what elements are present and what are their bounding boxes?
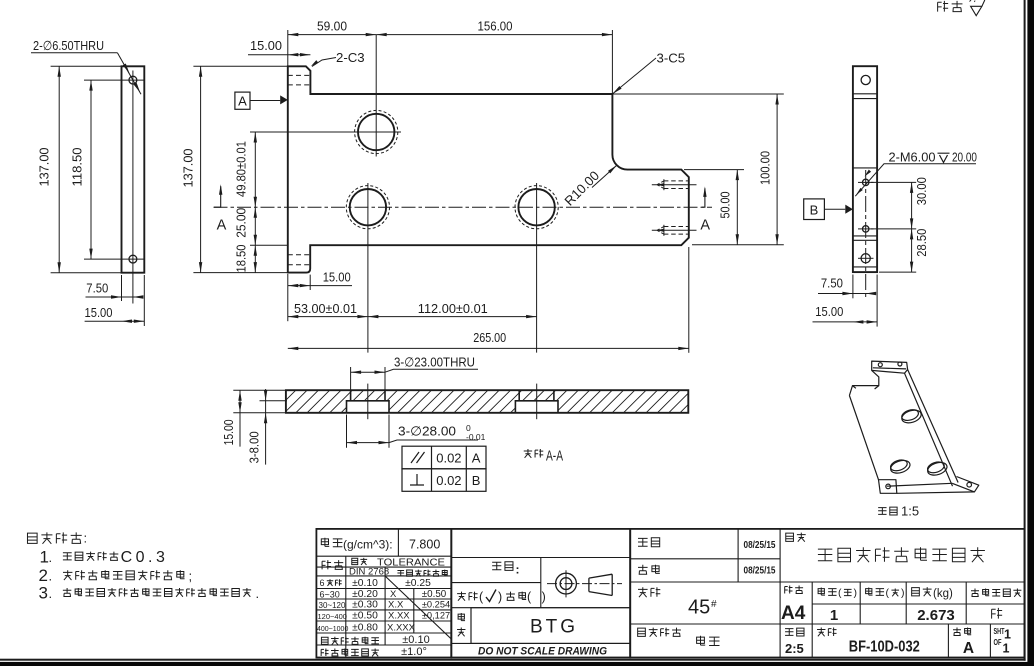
svg-text:X.XXX: X.XXX [387, 622, 416, 633]
right view M6 hole 2 [863, 226, 869, 232]
black bar bottom [0, 662, 1034, 666]
svg-text:A: A [238, 94, 247, 109]
dim 7.50 left view [86, 296, 141, 298]
tolerance table diagonal [385, 576, 451, 639]
svg-text:53.00±0.01: 53.00±0.01 [294, 302, 357, 316]
yes char [992, 608, 1003, 619]
dim 15.00 right view [876, 275, 878, 327]
hidden lines top-left tab [288, 74, 311, 76]
top hole vertical centerline/extension [375, 35, 377, 157]
svg-text:OF: OF [994, 638, 1002, 647]
section arrow A right [702, 188, 705, 207]
cbore white cutouts [347, 401, 390, 413]
svg-text:.: . [256, 586, 260, 601]
left view top hole crosshair h [84, 79, 144, 81]
svg-text:15.00: 15.00 [323, 270, 351, 285]
surface finish: qi-yu text [938, 1, 949, 12]
stacked dims 49.80/25.00/18.50 [254, 132, 256, 273]
svg-text:2: 2 [39, 566, 48, 585]
svg-text:265.00: 265.00 [473, 330, 506, 345]
hole2 D28 cbore dashed [346, 186, 389, 229]
section hatching [270, 386, 729, 416]
title text big [818, 549, 832, 561]
datum B flag [804, 199, 825, 220]
svg-text:18.50: 18.50 [234, 245, 249, 273]
svg-text:0.02: 0.02 [436, 451, 461, 466]
left view hole centerline vertical [132, 71, 134, 304]
undimensioned hole tol row [321, 637, 328, 644]
svg-text:±0.30: ±0.30 [352, 600, 378, 611]
unit cell [492, 562, 501, 569]
right view M6 hole 1 [863, 179, 869, 185]
extension lines 137 dim [51, 65, 122, 67]
dim 59.00 [288, 34, 376, 36]
version cell [953, 628, 961, 636]
name cell [786, 533, 794, 541]
mm/inch cell [457, 592, 466, 601]
svg-text:7.800: 7.800 [409, 538, 440, 552]
section hole centerlines [367, 384, 369, 420]
svg-text:50.00: 50.00 [718, 192, 733, 219]
svg-text:B: B [472, 473, 481, 488]
right view dim extensions 30/28.50 [871, 181, 916, 183]
svg-text:1: 1 [1003, 642, 1010, 656]
left view top hole (6.5 THRU) [129, 76, 137, 84]
svg-text:0.02: 0.02 [436, 473, 461, 488]
sheet border right vertical [1024, 0, 1026, 661]
svg-text:2:5: 2:5 [785, 641, 804, 656]
iso top-left notch [849, 370, 878, 395]
iso bottom right ear [952, 477, 979, 492]
svg-text:156.00: 156.00 [478, 19, 513, 34]
hidden M6 tapped hole at y=230.3 [652, 229, 697, 231]
svg-text:A: A [963, 640, 974, 657]
material row [638, 587, 648, 597]
dim 118.50 left view [90, 80, 92, 259]
dim 30.00 [911, 182, 913, 272]
right view bottom hole [861, 254, 870, 263]
svg-text:15.00: 15.00 [221, 419, 236, 445]
surface treat row [638, 628, 646, 636]
svg-text:3-∅23.00THRU: 3-∅23.00THRU [394, 355, 475, 370]
title block: right section [630, 529, 1024, 658]
top hole horizontal centerline/extension [250, 131, 401, 133]
svg-text:6: 6 [320, 578, 325, 588]
review row [638, 565, 648, 575]
cbore 1 outline [347, 401, 390, 413]
svg-text:BTG: BTG [530, 617, 578, 638]
svg-text:B: B [810, 203, 819, 218]
svg-text:3-C5: 3-C5 [657, 51, 686, 66]
sheet border bottom horizontal [0, 659, 1026, 661]
svg-text:7.50: 7.50 [86, 281, 108, 296]
design row [638, 538, 648, 546]
svg-text:SHT: SHT [994, 627, 1005, 636]
scale cell [785, 629, 793, 636]
hole3 D23 [518, 189, 554, 225]
svg-text:X.X: X.X [388, 600, 404, 611]
hole2 wall L [518, 390, 520, 401]
undimensioned angle tol row [321, 648, 328, 656]
svg-text:25.00: 25.00 [234, 208, 249, 238]
hole3 D28 cbore dashed [515, 186, 558, 229]
right view crosshair ticks [858, 181, 874, 183]
section arrow A left [214, 186, 221, 207]
svg-text:BF-10D-032: BF-10D-032 [849, 639, 920, 656]
svg-text:±0.10: ±0.10 [352, 578, 378, 589]
geometric tolerance frame row1 // 0.02 A [402, 446, 486, 469]
svg-text::: : [84, 531, 88, 546]
svg-text:±0.25: ±0.25 [405, 578, 431, 589]
right view inner horizontal lines [853, 93, 877, 95]
left view bottom hole crosshair h [84, 258, 144, 260]
iso bottom left ear [879, 480, 897, 494]
dim 137.00 left view [58, 66, 60, 272]
svg-text:118.50: 118.50 [70, 148, 85, 187]
svg-text:±0.80: ±0.80 [352, 622, 378, 633]
svg-text:2-M6.00: 2-M6.00 [889, 150, 936, 165]
svg-text:.: . [49, 586, 53, 601]
dim 3-8.00 section [260, 400, 288, 402]
svg-text:C0.3: C0.3 [121, 549, 169, 566]
hole3 vertical extension [536, 183, 538, 353]
label scale 1:5 [878, 508, 886, 515]
svg-text:20.00: 20.00 [952, 150, 977, 165]
cbore 2 outline [515, 401, 558, 413]
svg-text:7.50: 7.50 [821, 276, 843, 291]
svg-text:400~1000: 400~1000 [317, 626, 348, 633]
svg-text:120~400: 120~400 [318, 612, 347, 621]
iso top tab [872, 361, 908, 373]
svg-text:±0.50: ±0.50 [352, 611, 378, 622]
hidden lines bottom-left tab [288, 254, 310, 256]
iso bottom strip outer [897, 492, 975, 493]
left side view: outline rectangle [122, 66, 145, 272]
black bar right [1027, 0, 1034, 666]
title block: tolerance table outer [316, 529, 451, 658]
svg-text:15.00: 15.00 [85, 305, 113, 320]
svg-text:45: 45 [688, 597, 710, 619]
hole2 wall R [553, 390, 555, 401]
svg-text:08/25/15: 08/25/15 [744, 565, 776, 577]
svg-text:49.80±0.01: 49.80±0.01 [235, 141, 249, 197]
svg-text:100.00: 100.00 [758, 151, 773, 185]
svg-text:;: ; [189, 569, 193, 584]
drawing number cell [817, 628, 825, 637]
qty front cell [818, 588, 825, 596]
geometric tolerance frame row2 perp 0.02 B [402, 469, 486, 492]
svg-text:±1.0°: ±1.0° [401, 646, 427, 658]
svg-text:±0.50: ±0.50 [422, 589, 447, 600]
svg-text:): ) [901, 587, 905, 599]
dim line 59.00 / 156.00 extensions [287, 30, 289, 66]
svg-text:137.00: 137.00 [181, 149, 196, 188]
dim 100.00 [612, 93, 783, 95]
qty back cell [866, 588, 873, 596]
svg-text:( ): ( ) [527, 590, 546, 604]
svg-text:3-8.00: 3-8.00 [247, 431, 262, 463]
BTG cell [471, 608, 630, 644]
svg-text:28.50: 28.50 [914, 229, 929, 257]
iso tab holes [878, 363, 882, 367]
main centerline A-A [214, 206, 713, 208]
iso right edge outer [908, 370, 959, 483]
hole1 wall R [384, 390, 386, 401]
hole1 wall L [350, 390, 352, 401]
dim 137.00 main view [193, 65, 287, 67]
iso bottom strip inner [887, 483, 952, 486]
svg-text:3-∅28.00: 3-∅28.00 [398, 424, 456, 439]
top hole D23 [358, 114, 394, 150]
right view top hole [861, 75, 870, 84]
left view bottom hole (6.5 THRU) [129, 255, 137, 263]
svg-text:X: X [390, 589, 397, 600]
tolerance table verticals [397, 529, 399, 556]
common part cell [971, 589, 979, 597]
svg-text:59.00: 59.00 [317, 19, 347, 34]
dim 15.00 section [233, 389, 286, 391]
dim 15.00 bottom tab [309, 275, 311, 290]
dim 7.50 right view [852, 275, 854, 299]
svg-text:): ) [498, 590, 502, 604]
left view dims bottom extensions [121, 275, 123, 301]
svg-text:(: ( [838, 587, 842, 599]
dim 3-D23.00THRU [350, 367, 352, 390]
svg-text:A-A: A-A [546, 448, 563, 465]
svg-text:2.673: 2.673 [917, 607, 955, 624]
svg-text:±0.20: ±0.20 [352, 589, 378, 600]
iso counterbore holes [900, 408, 923, 425]
svg-text:.: . [49, 569, 53, 584]
svg-text:X.XX: X.XX [388, 611, 410, 622]
projection symbol [547, 583, 622, 585]
density row [321, 538, 329, 547]
top hole D28 cbore dashed [355, 110, 398, 153]
svg-text:): ) [854, 587, 858, 599]
svg-text:15.00: 15.00 [250, 38, 282, 53]
datum A flag [235, 92, 250, 109]
main view outline [288, 66, 689, 272]
tolerance table horizontals [316, 555, 451, 557]
machine model cell [458, 613, 465, 621]
precision cell [322, 560, 331, 569]
svg-text:1: 1 [830, 607, 838, 624]
dim 3-D28.00 [346, 415, 348, 448]
svg-text:30.00: 30.00 [914, 177, 929, 205]
svg-text:A: A [217, 218, 227, 234]
svg-text:±0.254: ±0.254 [422, 600, 450, 610]
svg-text:112.00±0.01: 112.00±0.01 [418, 302, 488, 316]
dim 265.00 [688, 247, 690, 353]
dim 15.00 left view [85, 320, 145, 322]
sheet size cell [785, 586, 793, 594]
weight cell [912, 588, 920, 596]
iso right edge inner [905, 373, 953, 486]
svg-text:08/25/15: 08/25/15 [744, 539, 776, 551]
svg-text:.: . [49, 550, 53, 565]
svg-text:1: 1 [1004, 628, 1011, 642]
iso left slant edge [849, 396, 878, 480]
surface finish check symbol [971, 0, 985, 16]
svg-text::: : [516, 563, 520, 577]
svg-text:2-C3: 2-C3 [336, 50, 365, 65]
svg-text:#: # [711, 599, 717, 610]
label section A-A [524, 449, 532, 458]
hole2 D23 [350, 189, 386, 225]
dim 15.00 top tab [248, 54, 310, 56]
svg-text:3: 3 [39, 584, 48, 603]
svg-text:(g/cm^3):: (g/cm^3): [343, 538, 393, 552]
right side view outline [853, 66, 877, 272]
hole2 vertical extension [367, 183, 369, 353]
svg-text:15.00: 15.00 [815, 304, 843, 319]
svg-text:-0.01: -0.01 [466, 432, 486, 442]
svg-text:137.00: 137.00 [37, 148, 52, 187]
svg-text:DO NOT SCALE DRAWING: DO NOT SCALE DRAWING [478, 646, 607, 658]
svg-text:A: A [472, 451, 481, 466]
hidden M6 tapped hole at y=184.7 [652, 184, 697, 186]
dim 50.00 right tab [684, 169, 744, 171]
svg-text:±0,127: ±0,127 [422, 611, 450, 621]
svg-text:(kg): (kg) [933, 588, 953, 600]
svg-text:A: A [700, 218, 710, 234]
svg-text:±0.10: ±0.10 [402, 634, 429, 646]
svg-text:(: ( [886, 587, 890, 599]
svg-text:A4: A4 [781, 603, 806, 624]
svg-text:1:5: 1:5 [901, 504, 919, 519]
svg-text:DIN 2768: DIN 2768 [349, 566, 389, 577]
tech requirements heading [27, 533, 37, 543]
right view vertical centerline [865, 170, 867, 298]
svg-text:6~30: 6~30 [320, 590, 340, 600]
svg-text:2-∅6.50THRU: 2-∅6.50THRU [33, 38, 104, 53]
title block: middle section borders [451, 529, 630, 658]
dim 156.00 [376, 34, 612, 36]
dims 53.00 / 112.00 [287, 274, 289, 321]
svg-text:30~120: 30~120 [319, 601, 346, 610]
